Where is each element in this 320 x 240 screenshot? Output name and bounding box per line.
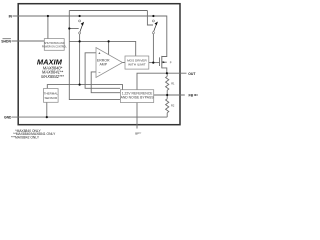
svg-text:OUT: OUT: [188, 72, 196, 76]
svg-text:AND NOISE BYPASS: AND NOISE BYPASS: [121, 96, 155, 100]
svg-text:SHDN: SHDN: [1, 40, 11, 44]
svg-text:SHUTDOWN AND: SHUTDOWN AND: [44, 42, 65, 45]
svg-text:IN: IN: [9, 15, 13, 19]
svg-text:FB: FB: [189, 94, 194, 98]
svg-text:POWER-ON CONTROL: POWER-ON CONTROL: [42, 47, 67, 49]
svg-text:−: −: [98, 71, 100, 75]
svg-text:AMP: AMP: [99, 63, 107, 67]
svg-text:P: P: [170, 61, 172, 65]
svg-text:***MAX8842 ONLY: ***MAX8842 ONLY: [11, 136, 40, 140]
svg-text:THERMAL: THERMAL: [44, 92, 59, 96]
svg-text:MAX8842***: MAX8842***: [41, 74, 64, 79]
svg-text:R2: R2: [171, 104, 175, 108]
svg-text:BP**: BP**: [135, 131, 142, 135]
svg-text:GND: GND: [4, 116, 12, 120]
svg-text:R1: R1: [171, 82, 175, 86]
svg-text:+: +: [98, 51, 100, 55]
svg-text:WITH ILIMIT: WITH ILIMIT: [128, 63, 146, 67]
svg-text:1.22V REFERENCE: 1.22V REFERENCE: [122, 92, 153, 96]
svg-text:SENSOR: SENSOR: [44, 96, 58, 100]
svg-text:ERROR: ERROR: [97, 59, 110, 63]
